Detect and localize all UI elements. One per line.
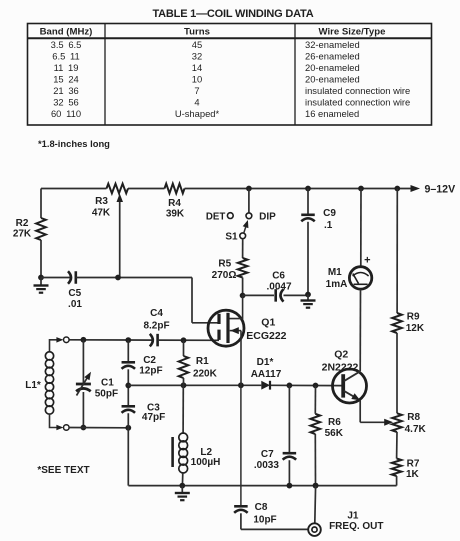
resistor R1 — [183, 340, 185, 356]
node C7 top — [287, 383, 293, 389]
svg-text:insulated connection wire: insulated connection wire — [305, 85, 410, 96]
svg-text:3.5 6.5: 3.5 6.5 — [51, 39, 82, 50]
svg-text:21 36: 21 36 — [53, 85, 79, 96]
node C3 bottom junction — [125, 425, 131, 431]
svg-text:S1: S1 — [225, 232, 238, 243]
node right rail tap — [394, 186, 400, 192]
svg-text:20-enameled: 20-enameled — [305, 73, 360, 84]
node C1 bottom — [81, 425, 87, 431]
wire J1 drop — [314, 486, 317, 524]
svg-text:Q1: Q1 — [261, 317, 275, 329]
wire gate row — [69, 339, 152, 341]
svg-text:J1: J1 — [347, 511, 359, 522]
svg-text:10pF: 10pF — [253, 515, 276, 526]
svg-text:R9: R9 — [407, 312, 420, 323]
resistor R8 (pot) — [396, 333, 398, 413]
transistor Q1 ECG222 — [208, 310, 244, 346]
svg-text:56K: 56K — [325, 428, 344, 439]
switch S1 DET contact — [227, 213, 233, 219]
svg-text:6.5 11: 6.5 11 — [52, 50, 79, 61]
capacitor C1 (variable) — [82, 340, 84, 383]
capacitor C6 — [243, 294, 274, 296]
node C1 top — [81, 337, 87, 343]
svg-text:R4: R4 — [168, 198, 181, 209]
svg-text:32: 32 — [192, 50, 202, 61]
svg-text:220K: 220K — [193, 369, 218, 380]
svg-text:R5: R5 — [218, 259, 231, 270]
capacitor C2 — [127, 340, 129, 362]
svg-text:16 enameled: 16 enameled — [305, 108, 359, 119]
svg-text:.1: .1 — [324, 220, 333, 231]
node source/D1 — [238, 382, 244, 388]
node R1 top — [181, 337, 187, 343]
svg-text:C9: C9 — [323, 208, 336, 219]
svg-text:32 56: 32 56 — [53, 97, 79, 108]
wire C8 branch — [240, 385, 242, 506]
svg-text:8.2pF: 8.2pF — [143, 320, 169, 331]
svg-text:4.7K: 4.7K — [405, 424, 427, 435]
svg-text:27K: 27K — [13, 229, 32, 240]
svg-text:ECG222: ECG222 — [246, 330, 286, 342]
resistor R5 — [242, 239, 244, 258]
switch S1 DIP contact — [246, 213, 252, 219]
node R6 top — [313, 383, 319, 389]
capacitor C5 — [68, 271, 71, 284]
svg-text:9–12V: 9–12V — [425, 183, 456, 195]
capacitor C7 — [288, 385, 290, 453]
resistor R3 (pot) — [107, 184, 129, 194]
Q1 drain lead — [230, 296, 243, 319]
resistor R2 — [40, 189, 42, 219]
capacitor C3 — [122, 405, 136, 408]
svg-text:*1.8-inches long: *1.8-inches long — [38, 138, 110, 149]
svg-text:100µH: 100µH — [191, 457, 221, 468]
svg-text:+: + — [364, 254, 370, 266]
svg-text:R7: R7 — [407, 459, 420, 470]
svg-text:60 110: 60 110 — [51, 108, 81, 119]
node R5/C6/drain — [240, 293, 246, 299]
node wiper junction — [115, 275, 121, 281]
table header separator — [28, 37, 432, 39]
svg-text:Band (MHz): Band (MHz) — [40, 27, 93, 38]
Q2 collector — [344, 371, 360, 381]
wire mid row to Q2 base — [128, 384, 261, 386]
ground below L2 — [181, 486, 183, 493]
node C7 bottom — [287, 483, 293, 489]
svg-text:.0047: .0047 — [266, 281, 291, 292]
R3 wiper arm — [119, 200, 121, 278]
svg-text:270Ω: 270Ω — [212, 270, 237, 281]
node R6 bottom — [313, 483, 319, 489]
table border — [28, 24, 432, 126]
wire M1 bottom to Q2 collector — [359, 289, 361, 371]
svg-text:1mA: 1mA — [326, 279, 348, 290]
svg-text:L1*: L1* — [25, 380, 41, 391]
svg-text:C4: C4 — [150, 308, 163, 319]
svg-text:47K: 47K — [92, 208, 111, 219]
svg-text:15 24: 15 24 — [53, 73, 79, 84]
node J1 tap — [313, 483, 319, 489]
wire bottom common — [128, 485, 396, 487]
switch S1 common — [240, 233, 246, 239]
node R1 bottom — [181, 382, 187, 388]
wire top supply rail — [41, 188, 107, 190]
switch S1 arm — [244, 225, 247, 234]
svg-text:U-shaped*: U-shaped* — [175, 108, 220, 119]
capacitor C4 — [150, 334, 153, 347]
svg-text:2N2222: 2N2222 — [322, 361, 359, 373]
svg-text:1K: 1K — [406, 469, 420, 480]
table column divider 1 — [104, 24, 106, 126]
svg-text:47pF: 47pF — [142, 412, 165, 423]
svg-text:C5: C5 — [68, 288, 81, 299]
diode D1 — [261, 381, 270, 390]
svg-text:R2: R2 — [16, 218, 29, 229]
supply arrow 9-12V — [411, 185, 421, 192]
resistor R9 — [396, 189, 398, 314]
svg-text:M1: M1 — [328, 267, 342, 278]
ground below R2 — [40, 278, 42, 286]
svg-text:DET: DET — [206, 212, 225, 223]
node C2 top — [125, 337, 131, 343]
svg-text:TABLE 1—COIL WINDING DATA: TABLE 1—COIL WINDING DATA — [152, 8, 313, 20]
inductor L1 — [50, 340, 59, 352]
svg-text:*SEE TEXT: *SEE TEXT — [37, 465, 89, 476]
node M1 rail tap — [358, 186, 364, 192]
svg-text:14: 14 — [192, 62, 202, 73]
wire M1 top — [360, 189, 362, 267]
svg-text:R6: R6 — [328, 417, 341, 428]
R8 wiper arrow — [384, 419, 393, 426]
node R2/C5 junction — [38, 275, 44, 281]
svg-text:50pF: 50pF — [95, 388, 118, 399]
svg-text:C8: C8 — [255, 502, 268, 513]
svg-text:C7: C7 — [261, 449, 274, 460]
svg-text:FREQ. OUT: FREQ. OUT — [329, 521, 383, 532]
node C6/C9 ground junction — [305, 292, 311, 298]
connector J1 — [308, 523, 321, 536]
wire L1 bottom row — [69, 427, 128, 429]
svg-text:.0033: .0033 — [254, 460, 279, 471]
Q2 emitter — [344, 391, 357, 398]
svg-text:Q2: Q2 — [334, 349, 348, 361]
svg-text:insulated connection wire: insulated connection wire — [305, 97, 410, 108]
transistor Q2 2N2222 — [333, 369, 367, 403]
node C2 bottom — [125, 383, 131, 389]
svg-text:12pF: 12pF — [139, 365, 162, 376]
svg-text:R8: R8 — [407, 412, 420, 423]
svg-text:Turns: Turns — [184, 27, 210, 38]
wire Q2 emitter to R8 wiper — [359, 400, 361, 422]
svg-text:45: 45 — [192, 39, 202, 50]
svg-text:C1: C1 — [101, 377, 114, 388]
node L2 bottom — [179, 483, 185, 489]
meter M1 — [349, 267, 371, 289]
svg-text:7: 7 — [194, 85, 199, 96]
resistor R7 — [396, 432, 398, 459]
table column divider 2 — [294, 24, 296, 126]
svg-text:12K: 12K — [406, 323, 425, 334]
svg-text:D1*: D1* — [257, 357, 274, 368]
svg-text:39K: 39K — [166, 209, 185, 220]
svg-text:11 19: 11 19 — [54, 62, 79, 73]
inductor L2 — [182, 385, 184, 434]
svg-text:AA117: AA117 — [251, 369, 282, 380]
svg-text:20-enameled: 20-enameled — [305, 62, 360, 73]
svg-text:32-enameled: 32-enameled — [305, 39, 360, 50]
svg-text:C6: C6 — [272, 270, 285, 281]
svg-text:4: 4 — [194, 97, 199, 108]
resistor R4 — [165, 184, 185, 194]
svg-text:10: 10 — [192, 73, 202, 84]
wire S1 drop — [248, 189, 250, 213]
wire C5 row — [41, 277, 71, 279]
svg-text:26-enameled: 26-enameled — [305, 50, 360, 61]
svg-text:Wire Size/Type: Wire Size/Type — [319, 27, 386, 38]
capacitor C9 — [307, 189, 309, 215]
capacitor C8 — [234, 505, 248, 508]
node C9 rail tap — [305, 186, 311, 192]
svg-text:.01: .01 — [68, 299, 82, 310]
svg-text:R1: R1 — [196, 356, 209, 367]
ground below C9 — [307, 295, 309, 301]
Q1 source lead with substrate arrow — [230, 330, 241, 332]
wire to Q1 gate2 — [191, 278, 193, 323]
svg-text:R3: R3 — [95, 196, 108, 207]
resistor R6 — [314, 386, 316, 414]
svg-text:DIP: DIP — [259, 212, 276, 223]
node S1 rail tap — [246, 186, 252, 192]
